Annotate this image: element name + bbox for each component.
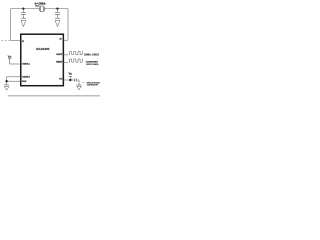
crystal Y1 left plate xyxy=(39,7,41,11)
wire left tie vertical xyxy=(6,77,8,85)
svg-text:VCC: VCC xyxy=(59,79,62,81)
crystal Y1 body xyxy=(41,6,44,12)
wire top-left segment to crystal xyxy=(11,8,40,10)
wire crystal to top-right corner xyxy=(44,8,68,10)
svg-text:CMSEL2: CMSEL2 xyxy=(22,77,31,79)
wire MCLKOUT stub xyxy=(63,61,68,63)
waveform W1 xyxy=(69,52,83,55)
wire X1 horizontal into pin xyxy=(11,39,21,41)
ground G2 below C2 xyxy=(55,18,60,26)
svg-text:1.2VP-P CMOS: 1.2VP-P CMOS xyxy=(86,64,99,66)
wire VCC to CMSEL1 pin xyxy=(10,63,21,65)
VCC tap left stem xyxy=(9,59,11,64)
svg-text:VCC: VCC xyxy=(69,72,73,76)
waveform W2 xyxy=(69,59,83,62)
capacitor C1 plates xyxy=(21,13,26,15)
VCC tap left bar xyxy=(8,58,11,60)
capacitor C1 lower stem xyxy=(22,15,24,18)
node B junction dot right crystal xyxy=(56,7,58,9)
annotation dash xyxy=(82,81,84,83)
capacitor C3 decoupling plates xyxy=(75,78,77,81)
ground G4 below C3 xyxy=(76,85,81,90)
VCC tap right stem xyxy=(69,77,71,80)
node D junction dot VCC xyxy=(69,79,71,81)
wire CLKOUT stub xyxy=(63,54,68,56)
svg-text:25MHz CMOS: 25MHz CMOS xyxy=(84,55,99,57)
ground G1 below C1 xyxy=(21,18,26,26)
svg-text:CLKOUT: CLKOUT xyxy=(56,54,63,56)
svg-text:VCC: VCC xyxy=(8,55,12,59)
capacitor C1 stem from node A xyxy=(22,9,24,13)
capacitor C2 plates xyxy=(55,13,60,15)
capacitor C2 stem from node B xyxy=(57,9,59,13)
svg-text:MCLKOUT: MCLKOUT xyxy=(56,61,63,63)
node A junction dot left crystal xyxy=(22,7,24,9)
crystal Y1 right plate xyxy=(43,7,45,11)
VCC tap right bar xyxy=(69,76,72,78)
svg-text:GND: GND xyxy=(22,81,27,83)
wire left vertical X1 drop xyxy=(10,9,12,41)
wire C3 to ground corner xyxy=(76,80,79,85)
footer rule xyxy=(8,95,100,97)
svg-text:CMSEL1: CMSEL1 xyxy=(22,64,31,66)
svg-text:(8pF): (8pF) xyxy=(35,5,39,7)
node C junction dot CMSEL2/GND xyxy=(5,80,7,82)
svg-text:MAX9485: MAX9485 xyxy=(36,47,49,51)
wire dashed stub left of X1 xyxy=(1,39,10,41)
IC U1 body xyxy=(21,34,64,85)
wire GND pin xyxy=(7,80,21,82)
capacitor C2 lower stem xyxy=(57,15,59,18)
wire X2 horizontal into pin xyxy=(63,39,68,41)
wire X2 vertical drop xyxy=(67,9,69,41)
ground G3 bottom-left xyxy=(4,85,9,90)
svg-text:CAPACITOR: CAPACITOR xyxy=(87,84,98,87)
wire VCC pin to cap xyxy=(63,79,74,81)
wire CMSEL2 xyxy=(7,76,21,78)
